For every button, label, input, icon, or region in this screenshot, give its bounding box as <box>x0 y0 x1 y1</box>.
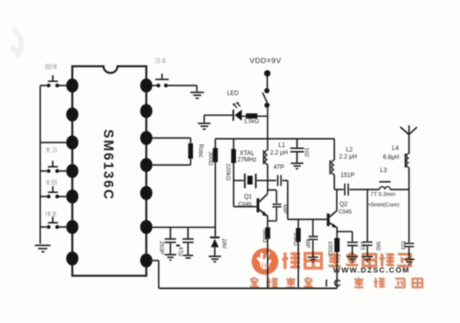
svg-text:47P: 47P <box>273 165 284 171</box>
svg-text:103: 103 <box>400 241 406 250</box>
svg-text:151P: 151P <box>340 173 354 179</box>
svg-text:68P: 68P <box>281 205 287 215</box>
wire coupling to Q2 base <box>288 181 327 220</box>
switch SW1 (right-turn) <box>40 75 66 87</box>
crystal X1 <box>234 180 244 182</box>
svg-text:6.8µH: 6.8µH <box>383 155 399 161</box>
svg-text:C945: C945 <box>238 202 251 208</box>
svg-text:C945: C945 <box>339 210 352 216</box>
capacitor C11 103 (antenna shunt) <box>404 190 414 259</box>
watermark shadow 电子市场网 <box>328 252 410 266</box>
diode D1 <box>214 227 216 236</box>
capacitor C9 151P <box>345 184 348 196</box>
switch SW5 (left-turn, top right of IC) <box>153 74 197 88</box>
wire bottom ground rail <box>159 287 337 289</box>
resistor R5 560 (Q1 emitter) <box>265 227 270 239</box>
label speed <box>45 211 56 216</box>
svg-text:XTAL: XTAL <box>239 150 255 157</box>
svg-text:Rosc: Rosc <box>197 144 203 158</box>
inductor L1 <box>267 139 269 150</box>
capacitor C5 48P <box>309 219 318 256</box>
op-amp U1 IC body SM6136C <box>72 66 146 275</box>
svg-text:WWW.DZSC.COM: WWW.DZSC.COM <box>333 266 410 275</box>
capacitor C2 68P feedback <box>268 190 282 221</box>
svg-text:×5mm(Core): ×5mm(Core) <box>368 202 400 208</box>
resistor R6 33k <box>297 219 299 228</box>
label backward <box>46 147 57 152</box>
resistor R7 100 (Q2 emitter) <box>334 238 339 252</box>
svg-text:203P: 203P <box>158 241 164 255</box>
svg-text:Q1: Q1 <box>244 195 253 201</box>
capacitor C10 560 to ground <box>362 190 372 256</box>
capacitor C6 103 (emitter bypass) <box>337 232 358 256</box>
wire pin R7 to bottom rail <box>153 261 159 289</box>
svg-text:L1: L1 <box>279 143 286 149</box>
ground (LED) <box>198 123 211 129</box>
svg-text:L2: L2 <box>346 148 353 154</box>
transistor Q1 <box>257 198 260 212</box>
watermark bottom row 全球最大IC采购网站 <box>250 278 313 288</box>
svg-text:100Ω: 100Ω <box>327 241 333 255</box>
svg-text:27MHz: 27MHz <box>237 158 256 164</box>
svg-text:2.2 µH: 2.2 µH <box>339 155 357 161</box>
IC pin dots left <box>66 79 78 266</box>
transistor Q2 <box>327 214 330 227</box>
inductor L4 <box>408 167 410 189</box>
wire pin R6 to supply node <box>153 226 216 228</box>
IC pin dots right <box>140 79 152 268</box>
capacitor C3 47P coupling <box>268 175 288 186</box>
capacitor C4 102 decoupling <box>290 139 304 163</box>
svg-text:L3: L3 <box>380 167 387 174</box>
resistor R3 300 <box>214 139 216 148</box>
wire pin L3 <box>40 142 66 144</box>
svg-text:33kΩ: 33kΩ <box>292 233 298 246</box>
capacitor C8 47u electrolytic <box>183 227 194 254</box>
watermark shadow bottom row <box>249 277 421 287</box>
inductor L3 <box>379 181 390 183</box>
svg-text:2AV: 2AV <box>221 239 227 249</box>
svg-text:48P: 48P <box>304 239 310 249</box>
resistor Rosc <box>153 138 191 165</box>
svg-text:LED: LED <box>227 91 239 97</box>
label left-turn <box>155 58 166 63</box>
wire RF output node <box>334 189 343 191</box>
svg-text:L4: L4 <box>392 146 399 152</box>
LED D2 <box>235 110 242 121</box>
wire and ground (SW5) <box>196 86 198 92</box>
svg-text:47µ: 47µ <box>177 247 183 257</box>
watermark text 维库 <box>282 253 321 269</box>
antenna ANT1 <box>400 125 417 153</box>
resistor R4 220k <box>233 139 235 149</box>
svg-text:Q2: Q2 <box>340 202 349 208</box>
ground (left bus) <box>35 245 51 251</box>
capacitor C7 203P <box>165 227 176 254</box>
svg-text:2.2 µH: 2.2 µH <box>270 150 288 156</box>
svg-text:7T 0.3mm: 7T 0.3mm <box>370 192 395 198</box>
svg-text:1.5kΩ: 1.5kΩ <box>244 119 260 125</box>
watermark text 电子市场网 <box>329 253 411 267</box>
resistor R2 1.5k <box>242 115 268 117</box>
switch SW2 <box>40 161 66 173</box>
svg-text:220kΩ: 220kΩ <box>225 164 231 182</box>
switch SW4 <box>40 217 66 229</box>
wire VDD rail <box>215 138 334 140</box>
svg-text:SM6136C: SM6136C <box>101 129 116 200</box>
svg-text:300Ω: 300Ω <box>207 152 213 167</box>
inductor L2 <box>333 139 335 160</box>
label right-turn <box>46 64 57 69</box>
svg-text:102: 102 <box>303 148 309 158</box>
left button bus wire <box>39 86 41 244</box>
svg-text:VDD=9V: VDD=9V <box>250 56 282 65</box>
scan smudge top-left <box>11 29 21 57</box>
svg-text:560: 560 <box>374 242 380 251</box>
switch SW6 power <box>264 88 269 93</box>
svg-text:560Ω: 560Ω <box>261 229 267 243</box>
switch SW3 <box>40 186 66 198</box>
label forward <box>46 180 57 185</box>
watermark logo circle with hand <box>252 248 279 275</box>
